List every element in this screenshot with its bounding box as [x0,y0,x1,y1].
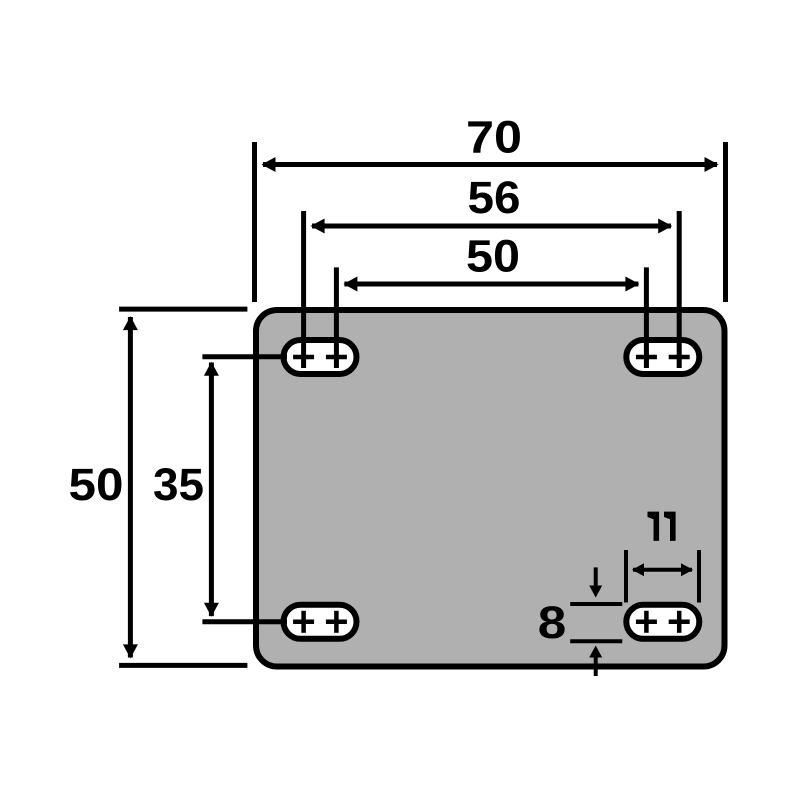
dimension 50 top label [466,231,520,282]
dimension 56 label [468,172,521,223]
dimension 35 line with arrows [204,362,219,617]
dimension 70 extension line left [252,142,257,302]
dimension 56 line with arrows [311,219,673,234]
slot bottom-left [284,605,357,639]
dimension 11 extension line right [697,550,701,603]
dimension 50 left extension line top [119,307,247,312]
svg-text:50: 50 [69,459,124,510]
svg-text:35: 35 [153,459,204,510]
dimension 8 extension line top [570,602,622,606]
dimension 50 top extension line left [334,267,339,368]
dimension 35 extension line bottom [202,619,287,624]
dimension 8 extension line bottom [570,639,622,643]
cross mark top-left slot right hole [326,346,347,368]
dimension 11 double arrow [632,563,693,576]
svg-text:8: 8 [538,597,567,648]
dimension 70 extension line right [723,142,728,302]
cross mark bottom-right slot left hole [636,611,657,633]
slot top-left [284,340,357,374]
dimension 11 extension line left [624,550,628,603]
dimension 50 left extension line bottom [119,663,247,668]
cross mark bottom-left slot right hole [326,611,347,633]
dimension 8 up arrow below [589,646,602,677]
svg-text:70: 70 [466,112,522,163]
dimension 50 top line with arrows [343,277,639,292]
cross mark top-right slot right hole [669,346,690,368]
dimension 70 label [466,112,522,163]
dimension 50 left label [69,459,124,510]
dimension 35 extension line top [202,354,287,359]
slot top-right [626,340,699,374]
dimension 56 extension line right [677,211,682,368]
cross mark bottom-right slot right hole [669,611,690,633]
mounting plate body [256,310,725,667]
dimension 50 top extension line right [644,267,649,368]
dimension 8 label [538,597,567,648]
dimension 56 extension line left [301,211,306,368]
dimension 50 left line with arrows [123,316,138,658]
cross mark top-left slot left hole [293,346,314,368]
cross mark top-right slot left hole [636,346,657,368]
dimension 11 label [648,512,676,541]
svg-text:50: 50 [466,231,520,282]
slot bottom-right [626,605,699,639]
svg-text:56: 56 [468,172,521,223]
dimension 8 down arrow above [589,567,602,597]
dimension 70 line with arrows [262,157,719,172]
cross mark bottom-left slot left hole [293,611,314,633]
dimension 35 label [153,459,204,510]
